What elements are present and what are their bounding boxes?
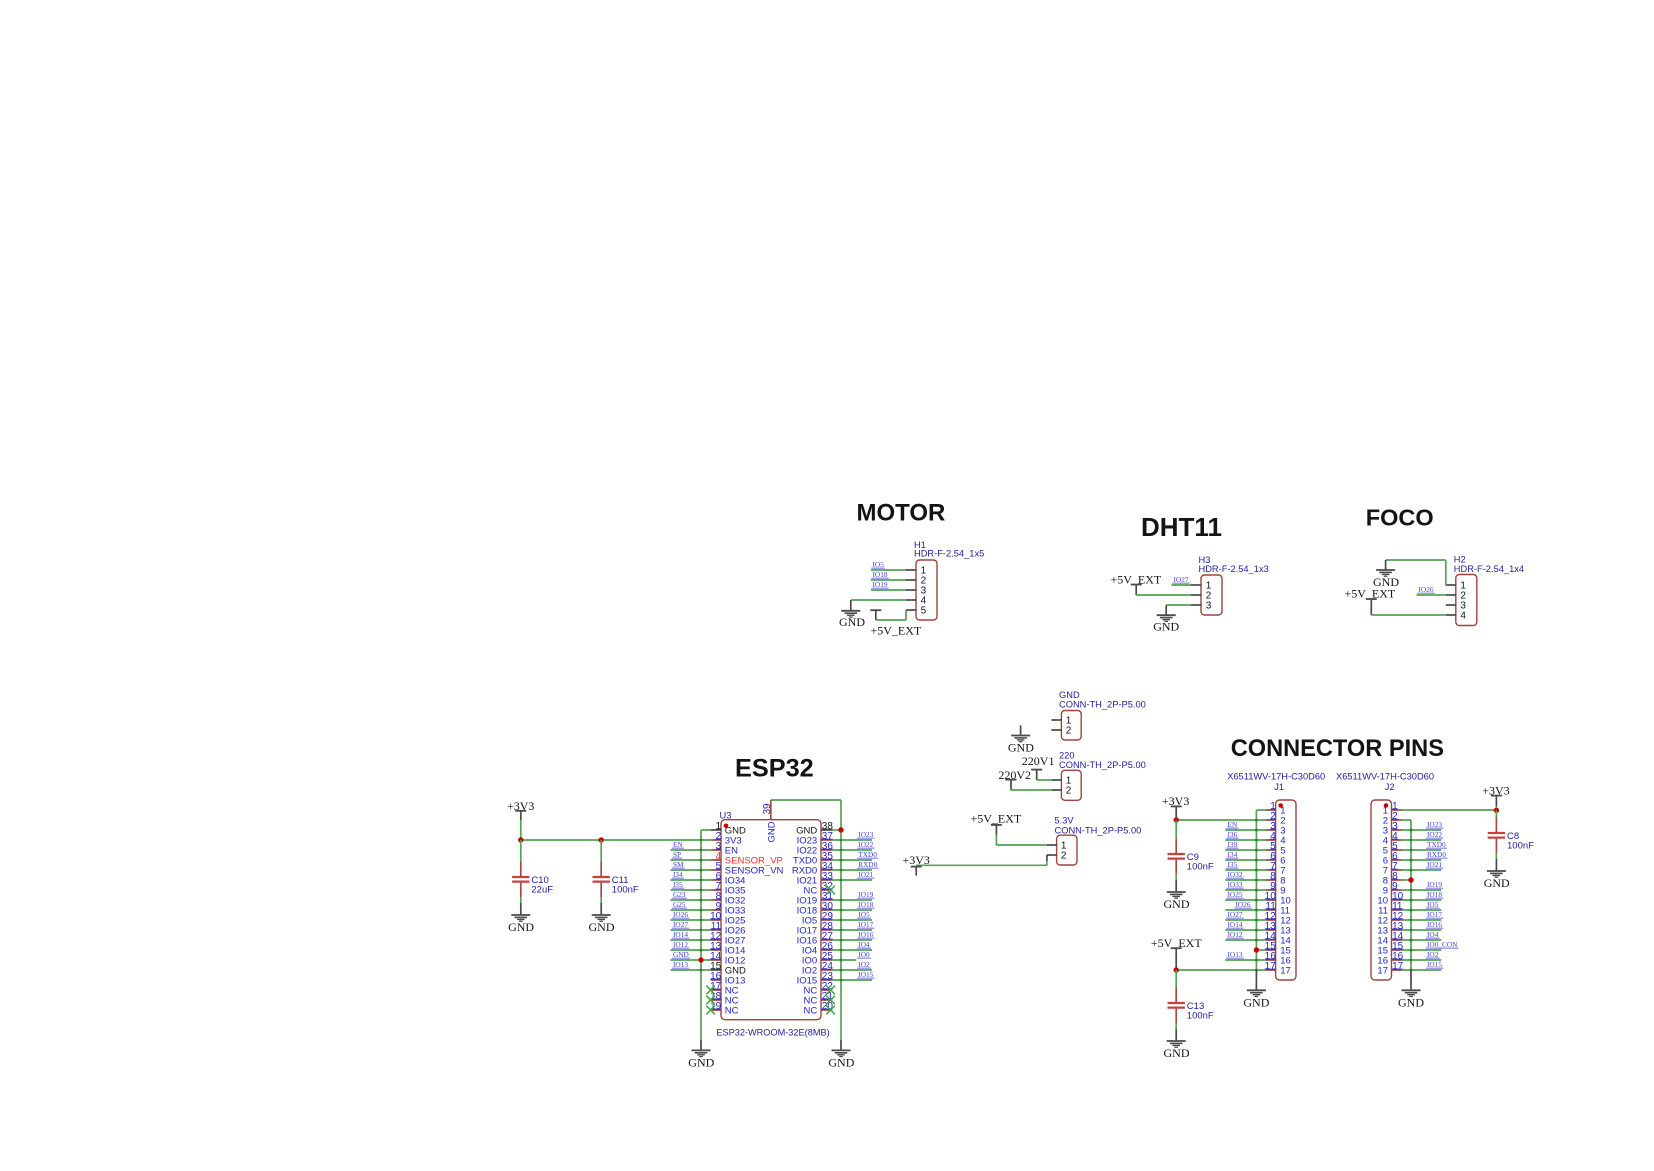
svg-text:IO4: IO4 [802,945,817,956]
svg-text:DHT11: DHT11 [1141,512,1222,542]
svg-text:220: 220 [1059,751,1075,761]
svg-text:GND: GND [796,825,817,836]
svg-text:IO26: IO26 [1236,900,1251,909]
svg-text:RXD0: RXD0 [1427,850,1446,859]
svg-text:ESP32: ESP32 [735,755,814,783]
svg-text:TXD0: TXD0 [1427,840,1446,849]
svg-text:IO16: IO16 [797,935,818,946]
svg-text:NC: NC [803,1005,817,1016]
svg-text:NC: NC [803,885,817,896]
svg-text:EN: EN [673,840,683,849]
svg-text:GND: GND [1153,620,1179,634]
svg-text:IO2: IO2 [1427,950,1439,959]
svg-text:GND: GND [508,920,534,934]
svg-text:GND: GND [1008,741,1034,755]
svg-text:CONN-TH_2P-P5.00: CONN-TH_2P-P5.00 [1059,700,1146,710]
svg-text:IO19: IO19 [858,890,873,899]
svg-text:IO18: IO18 [873,570,888,579]
svg-text:GND: GND [589,920,615,934]
svg-text:IO33: IO33 [1228,880,1243,889]
svg-text:GND: GND [688,1056,714,1070]
svg-text:I35: I35 [1228,860,1238,869]
svg-text:IO5: IO5 [873,560,885,569]
svg-text:IO14: IO14 [673,930,688,939]
svg-text:NC: NC [803,985,817,996]
svg-text:+5V_EXT: +5V_EXT [971,812,1022,826]
svg-text:IO13: IO13 [673,960,688,969]
svg-text:220V1: 220V1 [1022,754,1055,768]
svg-text:GND: GND [828,1056,854,1070]
svg-text:22uF: 22uF [531,885,553,896]
svg-text:GND: GND [1484,876,1510,890]
svg-text:IO5: IO5 [1427,900,1439,909]
svg-text:RXD0: RXD0 [858,860,877,869]
svg-text:+3V3: +3V3 [903,853,930,867]
svg-text:100nF: 100nF [1187,1011,1214,1022]
svg-text:I34: I34 [1228,850,1238,859]
svg-text:IO17: IO17 [797,925,818,936]
svg-text:HDR-F-2.54_1x3: HDR-F-2.54_1x3 [1199,564,1269,574]
svg-text:IO5: IO5 [858,910,870,919]
svg-text:CONN-TH_2P-P5.00: CONN-TH_2P-P5.00 [1059,760,1146,770]
svg-text:4: 4 [1460,610,1466,621]
svg-text:HDR-F-2.54_1x4: HDR-F-2.54_1x4 [1454,564,1524,574]
svg-text:39: 39 [762,803,773,815]
svg-text:IO17: IO17 [858,920,873,929]
svg-text:IO25: IO25 [1228,890,1243,899]
svg-text:IO26: IO26 [673,910,688,919]
svg-text:IO23: IO23 [1427,820,1442,829]
svg-text:GND: GND [1398,995,1424,1009]
svg-text:17: 17 [1377,966,1388,977]
svg-text:TXD0: TXD0 [793,855,817,866]
svg-text:NC: NC [803,995,817,1006]
svg-text:G25: G25 [673,900,686,909]
svg-text:IO22: IO22 [1427,830,1442,839]
svg-text:100nF: 100nF [1507,841,1534,852]
svg-text:J1: J1 [1274,782,1284,792]
svg-text:IO22: IO22 [797,845,818,856]
svg-text:IO15: IO15 [797,975,818,986]
svg-text:IO4: IO4 [858,940,870,949]
svg-text:GND: GND [1243,995,1269,1009]
svg-text:GND: GND [1059,690,1080,700]
svg-text:EN: EN [1228,820,1238,829]
svg-text:CONN-TH_2P-P5.00: CONN-TH_2P-P5.00 [1055,826,1142,836]
svg-text:IO12: IO12 [1228,930,1243,939]
svg-text:HDR-F-2.54_1x5: HDR-F-2.54_1x5 [914,549,984,559]
svg-text:NC: NC [725,1005,739,1016]
svg-text:SP: SP [673,850,681,859]
svg-text:IO18: IO18 [797,905,818,916]
svg-text:J2: J2 [1385,782,1395,792]
svg-text:IO27: IO27 [1174,575,1189,584]
svg-text:IO22: IO22 [858,840,873,849]
svg-text:IO12: IO12 [673,940,688,949]
svg-text:IO4: IO4 [1427,930,1439,939]
svg-text:IO15: IO15 [858,970,873,979]
svg-text:GND: GND [839,615,865,629]
svg-text:IO5: IO5 [802,915,817,926]
svg-text:RXD0: RXD0 [792,865,817,876]
svg-text:100nF: 100nF [1187,862,1214,873]
svg-text:IO2: IO2 [802,965,817,976]
svg-text:2: 2 [1066,785,1072,796]
svg-text:IO14: IO14 [1228,920,1243,929]
svg-text:IO21: IO21 [797,875,818,886]
svg-text:CONNECTOR PINS: CONNECTOR PINS [1231,736,1444,762]
svg-text:IO16: IO16 [1427,920,1442,929]
svg-text:IO2: IO2 [858,960,870,969]
svg-text:X6511WV-17H-C30D60: X6511WV-17H-C30D60 [1336,772,1434,782]
svg-text:IO27: IO27 [673,920,688,929]
svg-text:IO13: IO13 [1228,950,1243,959]
svg-text:GND: GND [1164,897,1190,911]
svg-text:FOCO: FOCO [1366,505,1434,531]
svg-text:I39: I39 [1228,840,1238,849]
svg-text:GND: GND [673,950,689,959]
svg-text:2: 2 [1061,851,1067,862]
svg-text:X6511WV-17H-C30D60: X6511WV-17H-C30D60 [1227,772,1325,782]
svg-text:I35: I35 [673,880,683,889]
svg-text:I36: I36 [1228,830,1238,839]
svg-text:IO17: IO17 [1427,910,1442,919]
svg-text:+5V_EXT: +5V_EXT [871,624,922,638]
svg-text:17: 17 [1265,961,1277,972]
svg-text:H2: H2 [1454,555,1466,565]
svg-text:IO0_CON: IO0_CON [1427,940,1458,949]
svg-text:ESP32-WROOM-32E(8MB): ESP32-WROOM-32E(8MB) [716,1028,829,1038]
svg-text:I34: I34 [673,870,683,879]
svg-text:5: 5 [921,605,927,616]
svg-text:100nF: 100nF [612,885,639,896]
svg-text:2: 2 [1066,725,1072,736]
svg-text:IO18: IO18 [1427,890,1442,899]
svg-text:17: 17 [1280,966,1291,977]
svg-text:GND: GND [767,821,778,842]
svg-text:IO0: IO0 [858,950,870,959]
svg-text:IO21: IO21 [1427,860,1442,869]
svg-text:IO18: IO18 [858,900,873,909]
svg-text:TXD0: TXD0 [858,850,877,859]
svg-text:IO23: IO23 [858,830,873,839]
svg-text:SM: SM [673,860,684,869]
svg-text:G23: G23 [673,890,686,899]
svg-text:5.3V: 5.3V [1055,816,1075,826]
svg-text:IO21: IO21 [858,870,873,879]
svg-text:IO19: IO19 [873,580,888,589]
svg-text:IO19: IO19 [1427,880,1442,889]
svg-text:IO26: IO26 [1419,585,1434,594]
svg-text:MOTOR: MOTOR [857,500,946,527]
svg-text:3: 3 [1206,600,1212,611]
svg-text:IO16: IO16 [858,930,873,939]
svg-text:IO19: IO19 [797,895,818,906]
svg-text:IO23: IO23 [797,835,818,846]
svg-text:IO32: IO32 [1228,870,1243,879]
svg-text:GND: GND [1164,1046,1190,1060]
svg-text:IO27: IO27 [1228,910,1243,919]
svg-text:IO15: IO15 [1427,960,1442,969]
svg-text:IO0: IO0 [802,955,817,966]
